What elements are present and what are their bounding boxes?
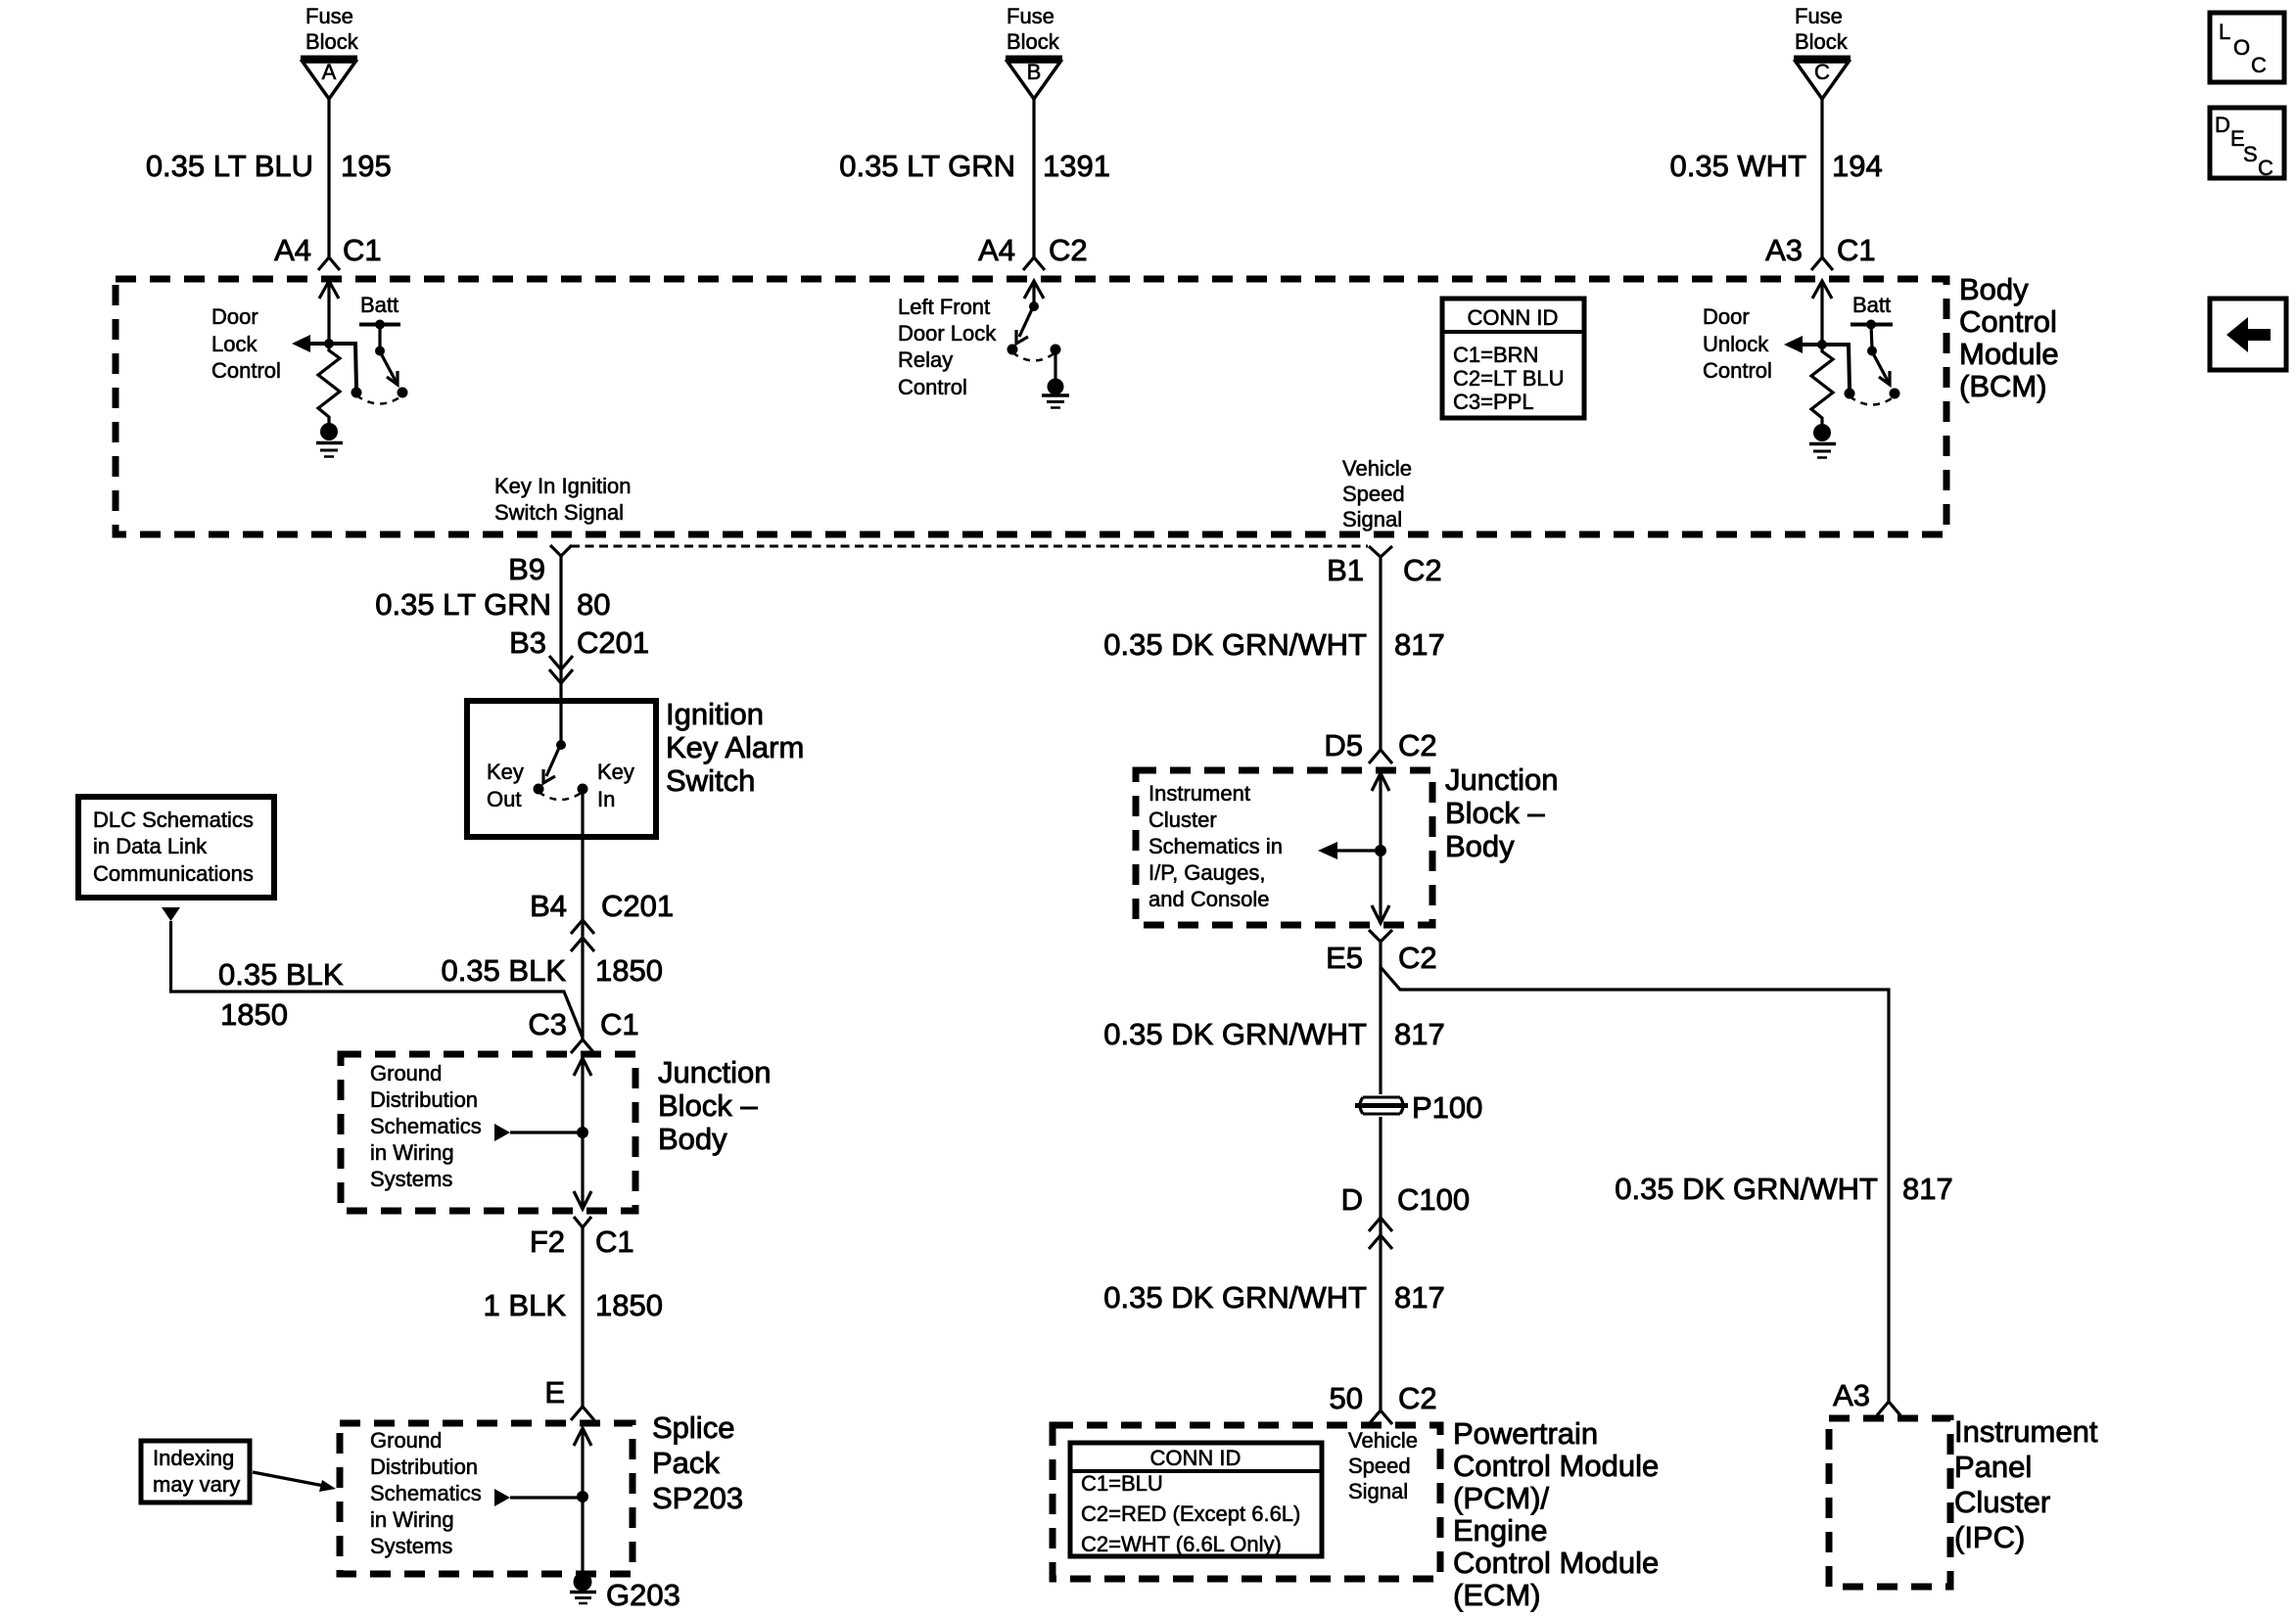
internal dashed wire B9 to B1 <box>571 545 1368 548</box>
throw arc C <box>1850 396 1895 405</box>
splice pack SP203 dashed box <box>340 1423 633 1574</box>
key switch pivot <box>556 740 566 750</box>
svg-text:Vehicle: Vehicle <box>1348 1428 1418 1453</box>
svg-text:In: In <box>597 787 615 811</box>
svg-text:DLC Schematics: DLC Schematics <box>93 808 254 832</box>
svg-text:Engine: Engine <box>1453 1513 1548 1548</box>
junction block 2 exit arrow <box>1372 905 1389 923</box>
svg-text:and Console: and Console <box>1148 887 1270 911</box>
svg-text:Key In Ignition: Key In Ignition <box>494 474 631 498</box>
svg-text:Schematics: Schematics <box>370 1481 482 1505</box>
switch pivot A <box>375 346 385 356</box>
wire fuse A to BCM <box>327 99 330 257</box>
svg-text:C1: C1 <box>600 1007 639 1041</box>
svg-text:in Wiring: in Wiring <box>370 1140 454 1165</box>
svg-text:F2: F2 <box>530 1224 565 1259</box>
svg-text:SP203: SP203 <box>652 1481 743 1515</box>
svg-text:C: C <box>2258 156 2273 180</box>
inline connector C201 chevrons <box>549 656 573 670</box>
ground G203 dot <box>574 1573 592 1592</box>
junction block 1 label <box>658 1055 771 1156</box>
connector A4/C1 female <box>318 257 340 270</box>
svg-text:1850: 1850 <box>220 997 288 1032</box>
switch contacts C <box>1845 389 1855 399</box>
wire B9 down <box>559 556 562 745</box>
node junction A <box>324 339 334 348</box>
svg-text:A4: A4 <box>978 233 1015 267</box>
svg-text:Block: Block <box>1007 29 1060 54</box>
svg-text:E: E <box>544 1375 565 1409</box>
back arrow legend box <box>2210 299 2286 370</box>
svg-text:Control: Control <box>1959 304 2057 339</box>
connector F2/C1 female <box>574 1217 591 1227</box>
svg-text:in Data Link: in Data Link <box>93 834 208 858</box>
svg-text:195: 195 <box>341 149 392 183</box>
wire contact to ground B <box>1054 349 1056 380</box>
svg-text:Instrument: Instrument <box>1148 781 1250 806</box>
label Door Unlock Control <box>1703 304 1772 383</box>
junction block 1 exit arrow <box>574 1191 591 1209</box>
svg-text:Fuse: Fuse <box>305 4 353 28</box>
svg-text:Block –: Block – <box>1445 796 1545 830</box>
wire dlc branch <box>171 921 584 1038</box>
svg-text:0.35 BLK: 0.35 BLK <box>218 957 344 992</box>
svg-text:Systems: Systems <box>370 1167 452 1191</box>
connector D5/C2 female <box>1369 750 1392 763</box>
conn id table PCM <box>1070 1443 1322 1556</box>
connector B1 female <box>1369 546 1392 557</box>
splice pack reference arrow <box>494 1489 510 1506</box>
node junction block 1 <box>577 1127 588 1138</box>
svg-text:Ground: Ground <box>370 1061 442 1086</box>
connector E male arrow <box>574 1428 591 1446</box>
resistor in door lock driver <box>318 344 340 424</box>
svg-text:Speed: Speed <box>1348 1454 1411 1478</box>
key out contact <box>534 784 544 795</box>
svg-text:Control Module: Control Module <box>1453 1449 1659 1483</box>
svg-text:Systems: Systems <box>370 1534 452 1558</box>
key switch blade <box>546 748 559 776</box>
label Vehicle Speed Signal <box>1342 456 1412 531</box>
ignition key alarm switch box <box>467 701 656 837</box>
svg-text:(ECM): (ECM) <box>1453 1578 1541 1612</box>
batt terminal bar A <box>359 323 400 327</box>
svg-text:Cluster: Cluster <box>1954 1485 2050 1519</box>
svg-text:Door Lock: Door Lock <box>898 321 997 346</box>
svg-text:0.35 DK GRN/WHT: 0.35 DK GRN/WHT <box>1615 1172 1878 1206</box>
svg-text:C2: C2 <box>1398 1381 1437 1415</box>
junction block body 2 dashed box <box>1136 770 1432 925</box>
svg-text:C2=RED (Except 6.6L): C2=RED (Except 6.6L) <box>1081 1501 1300 1526</box>
svg-text:I/P, Gauges,: I/P, Gauges, <box>1148 860 1265 885</box>
switch pivot C <box>1867 346 1877 356</box>
svg-text:0.35 DK GRN/WHT: 0.35 DK GRN/WHT <box>1103 627 1367 662</box>
switch contacts A <box>351 388 362 398</box>
powertrain control module dashed box <box>1053 1425 1440 1579</box>
svg-text:1391: 1391 <box>1043 149 1110 183</box>
svg-text:Fuse: Fuse <box>1007 4 1054 28</box>
wire to door lock switch contact <box>329 344 356 388</box>
svg-text:817: 817 <box>1394 1280 1445 1315</box>
svg-text:0.35 LT BLU: 0.35 LT BLU <box>146 149 313 183</box>
svg-text:C201: C201 <box>577 625 649 660</box>
svg-text:Lock: Lock <box>211 332 258 356</box>
key switch throw arc <box>539 792 583 800</box>
svg-text:Control: Control <box>898 375 967 399</box>
svg-text:C2: C2 <box>1398 728 1437 762</box>
junction block body 1 dashed box <box>341 1054 635 1211</box>
wire below P100 <box>1379 1117 1382 1410</box>
svg-text:0.35 BLK: 0.35 BLK <box>441 953 566 988</box>
svg-text:Splice: Splice <box>652 1410 734 1445</box>
svg-text:C201: C201 <box>601 889 674 923</box>
svg-text:in Wiring: in Wiring <box>370 1507 454 1532</box>
svg-text:A: A <box>322 60 337 84</box>
svg-text:Key Alarm: Key Alarm <box>666 730 804 764</box>
svg-text:C1: C1 <box>343 233 382 267</box>
fuse block C <box>1794 4 1851 99</box>
svg-text:Junction: Junction <box>1445 762 1558 797</box>
svg-text:Distribution: Distribution <box>370 1455 478 1479</box>
svg-text:B1: B1 <box>1327 553 1364 587</box>
conn id table BCM <box>1442 299 1584 418</box>
ground dot C <box>1813 424 1831 441</box>
batt terminal bar C <box>1851 323 1893 327</box>
svg-text:Vehicle: Vehicle <box>1342 456 1412 481</box>
wire fuse B to BCM <box>1032 99 1035 257</box>
ground symbol A <box>316 441 343 445</box>
junction block 2 inner text <box>1148 781 1283 911</box>
svg-text:A3: A3 <box>1833 1378 1870 1412</box>
svg-text:B: B <box>1027 60 1042 84</box>
connector A3 female <box>1877 1402 1900 1415</box>
svg-text:0.35 LT GRN: 0.35 LT GRN <box>375 587 551 622</box>
fuse block B <box>1006 4 1062 99</box>
svg-text:Batt: Batt <box>1852 293 1891 317</box>
svg-text:817: 817 <box>1902 1172 1953 1206</box>
svg-text:Block –: Block – <box>658 1088 758 1123</box>
node junction block 2 <box>1375 845 1386 856</box>
svg-text:Switch: Switch <box>666 763 755 798</box>
label Door Lock Control <box>211 304 281 383</box>
svg-text:Distribution: Distribution <box>370 1087 478 1112</box>
svg-text:Pack: Pack <box>652 1446 720 1480</box>
svg-text:Signal: Signal <box>1348 1479 1408 1503</box>
svg-text:Door: Door <box>1703 304 1750 329</box>
svg-text:0.35 LT GRN: 0.35 LT GRN <box>839 149 1015 183</box>
connector B9 female <box>550 545 572 556</box>
indexing arrow <box>253 1472 324 1486</box>
relay blade B <box>1019 309 1032 337</box>
indexing may vary box <box>141 1441 250 1502</box>
svg-text:C2: C2 <box>1398 941 1437 975</box>
svg-text:(PCM)/: (PCM)/ <box>1453 1481 1550 1515</box>
dlc schematics reference box <box>78 797 274 898</box>
junction block 2 label <box>1445 762 1558 863</box>
svg-text:Left Front: Left Front <box>898 295 990 319</box>
svg-text:Body: Body <box>1445 829 1515 863</box>
ground dot B <box>1048 379 1064 395</box>
svg-text:Signal: Signal <box>1342 507 1402 531</box>
svg-text:Schematics in: Schematics in <box>1148 834 1283 858</box>
wire E5 down <box>1379 942 1382 1094</box>
junction block 1 reference arrow <box>494 1124 510 1141</box>
door lock control output arrow <box>307 342 329 346</box>
svg-text:C1: C1 <box>1837 233 1876 267</box>
svg-text:Module: Module <box>1959 337 2059 371</box>
ground symbol B <box>1042 393 1069 397</box>
svg-text:Junction: Junction <box>658 1055 771 1089</box>
LOC legend box <box>2210 13 2284 82</box>
connector D5/C2 male arrow <box>1372 773 1389 791</box>
svg-text:CONN ID: CONN ID <box>1150 1446 1242 1470</box>
svg-text:D: D <box>1341 1182 1363 1217</box>
svg-text:B3: B3 <box>509 625 546 660</box>
connector A4/C2 male arrow <box>1024 281 1044 299</box>
label Key In Ignition Switch Signal <box>494 474 631 525</box>
svg-text:1850: 1850 <box>595 1288 663 1322</box>
splice pack label <box>652 1410 743 1515</box>
svg-text:D5: D5 <box>1324 728 1363 762</box>
svg-text:Control: Control <box>1703 358 1772 383</box>
wire branch to IPC <box>1381 967 1889 1402</box>
svg-text:C1=BRN: C1=BRN <box>1453 343 1538 367</box>
relay switch pivot B <box>1029 301 1039 311</box>
svg-text:A3: A3 <box>1765 233 1803 267</box>
ground dot A <box>320 423 338 440</box>
instrument panel cluster dashed box <box>1829 1418 1950 1587</box>
ignition key alarm switch label <box>666 697 804 798</box>
svg-text:Key: Key <box>597 760 634 784</box>
svg-text:L: L <box>2219 20 2230 44</box>
svg-text:C1: C1 <box>595 1224 634 1259</box>
svg-text:Block: Block <box>1795 29 1849 54</box>
svg-text:194: 194 <box>1832 149 1883 183</box>
svg-text:O: O <box>2233 35 2250 60</box>
svg-text:P100: P100 <box>1412 1090 1482 1125</box>
node splice pack <box>577 1491 588 1502</box>
dlc arrowhead <box>162 907 180 921</box>
svg-text:G203: G203 <box>606 1578 680 1612</box>
svg-text:may vary: may vary <box>153 1472 240 1497</box>
connector A3/C1 male arrow <box>1812 281 1832 299</box>
wire to splice pack <box>581 1227 584 1407</box>
svg-text:50: 50 <box>1330 1381 1363 1415</box>
svg-text:Switch Signal: Switch Signal <box>494 500 624 525</box>
resistor in door unlock driver <box>1811 345 1833 425</box>
svg-text:C3=PPL: C3=PPL <box>1453 390 1534 414</box>
label Left Front Door Lock Relay Control <box>898 295 997 399</box>
svg-text:Indexing: Indexing <box>153 1446 234 1470</box>
svg-text:1850: 1850 <box>595 953 663 988</box>
connector E female <box>571 1407 594 1420</box>
svg-text:B9: B9 <box>508 552 545 586</box>
inline connector C201 chevrons up <box>571 920 594 934</box>
key in contact <box>578 784 588 795</box>
svg-text:Ignition: Ignition <box>666 697 764 731</box>
svg-text:Out: Out <box>487 787 521 811</box>
fuse block A <box>301 4 359 99</box>
connector 50/C2 female <box>1369 1410 1392 1424</box>
inline connector C100 chevrons up <box>1369 1218 1392 1231</box>
svg-text:C2=WHT (6.6L Only): C2=WHT (6.6L Only) <box>1081 1532 1282 1556</box>
svg-text:(BCM): (BCM) <box>1959 369 2047 403</box>
switch blade C <box>1873 353 1889 383</box>
switch blade A <box>381 353 397 383</box>
connector C3/C1 female <box>571 1039 594 1053</box>
DESC legend box <box>2210 108 2284 180</box>
svg-text:C: C <box>2251 53 2267 77</box>
svg-text:0.35 WHT: 0.35 WHT <box>1669 149 1806 183</box>
ground symbol G203 <box>570 1591 596 1594</box>
wire key in down <box>581 789 584 1039</box>
svg-text:B4: B4 <box>530 889 567 923</box>
svg-text:Powertrain: Powertrain <box>1453 1416 1598 1451</box>
wire B1 down <box>1379 557 1382 750</box>
svg-text:817: 817 <box>1394 1017 1445 1051</box>
node junction C <box>1817 340 1827 349</box>
splice pack inner text <box>370 1428 482 1558</box>
label Vehicle Speed Signal PCM <box>1348 1428 1418 1503</box>
svg-text:C2: C2 <box>1403 553 1442 587</box>
body control module BCM dashed box <box>116 279 1946 534</box>
svg-text:Body: Body <box>658 1122 727 1156</box>
svg-text:S: S <box>2243 142 2258 166</box>
connector A4/C1 male arrow <box>319 281 339 299</box>
svg-text:0.35 DK GRN/WHT: 0.35 DK GRN/WHT <box>1103 1017 1367 1051</box>
svg-text:Panel: Panel <box>1954 1450 2032 1484</box>
svg-text:Block: Block <box>305 29 359 54</box>
svg-text:Key: Key <box>487 760 524 784</box>
svg-text:A4: A4 <box>274 233 311 267</box>
svg-text:C: C <box>1814 60 1830 84</box>
connector C1 male arrow <box>574 1058 591 1076</box>
svg-text:E5: E5 <box>1326 941 1363 975</box>
svg-text:Control Module: Control Module <box>1453 1546 1659 1580</box>
svg-text:(IPC): (IPC) <box>1954 1520 2025 1554</box>
svg-text:Door: Door <box>211 304 258 329</box>
junction block 2 reference arrow <box>1318 842 1337 859</box>
wire fuse C to BCM <box>1820 99 1823 257</box>
svg-text:Control: Control <box>211 358 281 383</box>
connector A3/C1 female <box>1811 257 1833 270</box>
svg-text:D: D <box>2215 113 2230 137</box>
PCM label <box>1453 1416 1659 1612</box>
svg-text:Instrument: Instrument <box>1954 1414 2098 1449</box>
svg-text:C100: C100 <box>1397 1182 1470 1217</box>
connector E5/C2 female <box>1369 930 1392 942</box>
svg-text:Schematics: Schematics <box>370 1114 482 1138</box>
svg-text:C1=BLU: C1=BLU <box>1081 1471 1163 1496</box>
svg-text:817: 817 <box>1394 627 1445 662</box>
svg-text:Communications: Communications <box>93 861 254 886</box>
svg-text:Cluster: Cluster <box>1148 808 1217 832</box>
IPC label <box>1954 1414 2098 1554</box>
svg-text:Batt: Batt <box>360 293 398 317</box>
junction block 1 inner text <box>370 1061 482 1191</box>
BCM label <box>1959 272 2059 403</box>
throw arc A <box>356 395 402 404</box>
throw arc B <box>1012 352 1055 361</box>
svg-text:Fuse: Fuse <box>1795 4 1843 28</box>
svg-text:C2=LT BLU: C2=LT BLU <box>1453 366 1565 391</box>
svg-text:Relay: Relay <box>898 347 953 372</box>
connector A4/C2 female <box>1023 257 1045 270</box>
svg-text:Body: Body <box>1959 272 2029 306</box>
svg-text:CONN ID: CONN ID <box>1468 305 1559 330</box>
wire to door unlock switch contact <box>1822 345 1850 389</box>
svg-text:1 BLK: 1 BLK <box>484 1288 567 1322</box>
svg-text:80: 80 <box>577 587 610 622</box>
svg-text:Ground: Ground <box>370 1428 442 1453</box>
door unlock control output arrow <box>1801 343 1822 346</box>
relay contacts B <box>1007 345 1018 355</box>
pass-through grommet P100 <box>1355 1097 1408 1114</box>
ground symbol C <box>1809 442 1836 446</box>
svg-text:0.35 DK GRN/WHT: 0.35 DK GRN/WHT <box>1103 1280 1367 1315</box>
svg-text:C3: C3 <box>528 1007 567 1041</box>
svg-text:C2: C2 <box>1049 233 1088 267</box>
svg-text:Unlock: Unlock <box>1703 332 1769 356</box>
svg-text:Speed: Speed <box>1342 482 1405 506</box>
